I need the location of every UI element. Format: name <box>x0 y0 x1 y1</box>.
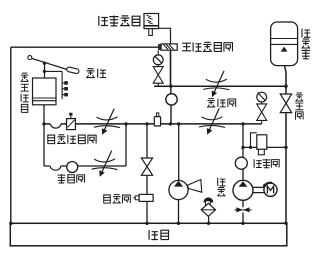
wire H3 <box>44 123 262 125</box>
three-way valve body <box>161 44 177 50</box>
solenoid square valve on H3 <box>67 119 76 130</box>
coupling bowtie under pump <box>235 209 252 211</box>
hand pump lever <box>187 180 202 193</box>
throttle T4 on H4 <box>94 159 115 162</box>
label 泄压阀 <box>254 159 279 168</box>
label 油箱 <box>149 230 168 240</box>
wire trunk valve to H2 <box>170 50 172 86</box>
wire hand pump to tank <box>178 200 180 224</box>
inline gauge circle pump column <box>235 157 247 169</box>
check valve circle <box>67 162 78 173</box>
suction filter cap <box>203 197 213 202</box>
label 截止阀 vertical <box>295 93 303 120</box>
stop valve bowtie on right trunk <box>280 94 291 113</box>
label 储能器 vertical <box>301 29 310 60</box>
wire trunk circle to H3 <box>170 105 172 124</box>
wire H5 relief line <box>243 146 286 148</box>
gauge right column <box>257 92 267 102</box>
gauge under valve <box>157 50 159 55</box>
wire main pump column <box>242 124 244 223</box>
bottle on H3 <box>157 113 159 117</box>
label 重锤 <box>86 69 106 78</box>
hop on H3 <box>50 122 61 125</box>
right small shutoff bowtie <box>261 102 263 124</box>
wire locking cylinder to valve <box>159 28 171 44</box>
left pipe border <box>10 47 12 223</box>
label 油泵 vertical <box>217 178 225 196</box>
lifting cylinder body <box>33 78 57 105</box>
label 电磁换向阀 <box>48 135 96 144</box>
main pump <box>233 180 253 200</box>
wire trunk H2 to circle <box>170 86 172 94</box>
piston rod <box>44 63 46 79</box>
label 锁定油缸 <box>99 16 140 27</box>
solenoid valve component <box>135 196 139 200</box>
label 电磁阀 <box>104 195 131 204</box>
locking cylinder rod <box>149 29 153 36</box>
lever arm <box>32 58 67 69</box>
locking cylinder body <box>144 14 159 29</box>
throttle T2 on H3 <box>202 117 223 120</box>
inline circle on trunk <box>166 94 177 105</box>
wire H1 top <box>11 46 159 48</box>
weight hammer <box>66 67 79 74</box>
label 三通换向阀 <box>182 42 232 51</box>
shutoff valve left (bowtie) <box>157 65 159 87</box>
label 节流阀 <box>207 99 236 107</box>
wire right trunk <box>285 66 287 224</box>
label 单向阀 <box>58 174 85 183</box>
suction filter diamond <box>201 203 215 216</box>
wire solenoid valve column <box>146 124 148 223</box>
lever pivot <box>28 56 32 60</box>
throttle T3 on H3 <box>97 117 118 120</box>
label 举升油缸 vertical <box>20 73 28 112</box>
wire H4 check-valve branch bottom <box>44 165 126 167</box>
wire hand pump column top <box>178 124 180 181</box>
three-way valve solenoid <box>159 45 162 50</box>
accumulator <box>271 22 298 66</box>
bowtie valve on solenoid column <box>141 158 152 175</box>
hop on H4 <box>50 164 61 167</box>
motor <box>264 183 277 196</box>
hand pump <box>169 180 188 199</box>
motor shaft <box>253 187 264 192</box>
wire H2 <box>154 85 286 87</box>
throttle T1 on H2 <box>206 79 227 82</box>
comb branch <box>44 71 64 99</box>
relief valve body <box>251 133 257 148</box>
wire branch vertical <box>125 124 127 166</box>
oil tank <box>10 223 287 246</box>
wire left column from lifting cylinder <box>43 105 45 166</box>
